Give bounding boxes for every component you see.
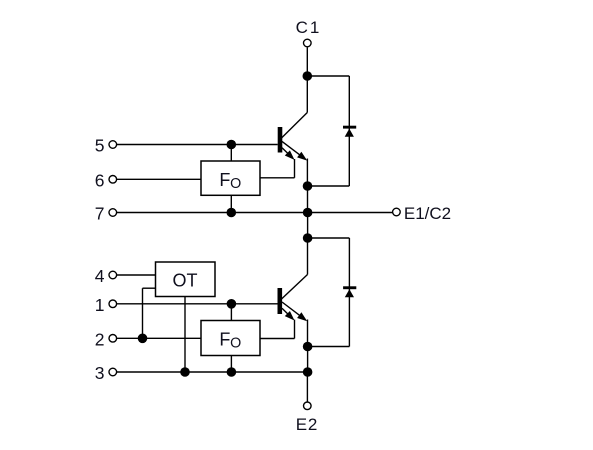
wire Q2 main emitter down to node: [307, 320, 309, 347]
transistor Q1 collector lead: [281, 113, 307, 139]
wire pin4 to OT left: [117, 274, 156, 276]
node OT bottom on pin3 line: [180, 367, 190, 377]
node main vertical on rail: [303, 208, 313, 218]
svg-text:7: 7: [95, 204, 105, 224]
transistor Q1 sense emitter arrowhead: [285, 150, 295, 160]
wire FO2 bottom: [230, 356, 232, 373]
node top (C1 / D1 cathode junction): [303, 71, 313, 81]
diode D2 branch bottom wire: [308, 346, 350, 348]
node E1 (Q1 emitter / D1 anode junction): [303, 181, 313, 191]
wire OT stub down to pin2 line: [142, 288, 144, 338]
wire rail down to lower collector node: [307, 213, 309, 239]
terminal pin 7: [109, 209, 117, 217]
diode D2 branch top wire: [308, 237, 350, 239]
diode D1 branch bottom wire: [308, 185, 350, 187]
wire pin7 / E1C2 rail: [117, 212, 392, 214]
wire Q1 sense emitter down: [294, 159, 296, 178]
diode D1 cathode bar: [343, 126, 356, 129]
svg-text:1: 1: [95, 295, 105, 315]
transistor Q2 base bar: [277, 288, 282, 314]
node pin2 / OT stub junction: [138, 334, 148, 344]
block OT box: [156, 262, 216, 297]
wire FO1 bottom: [230, 195, 232, 212]
transistor Q2 main emitter arrowhead: [297, 312, 307, 321]
svg-text:6: 6: [95, 170, 105, 190]
node pin1 / FO2 top junction: [227, 299, 237, 309]
terminal pin 2: [109, 335, 117, 343]
node pin3 / emitter junction: [303, 367, 313, 377]
wire C1 down to collector bend: [306, 47, 308, 112]
diode D2 cathode bar: [343, 286, 356, 289]
terminal E2: [304, 402, 312, 410]
transistor Q1 base bar: [278, 127, 283, 153]
diode D1 anode triangle: [345, 129, 354, 137]
svg-text:O: O: [230, 336, 241, 352]
transistor Q1 main emitter arrowhead: [297, 152, 307, 161]
transistor Q2 sense emitter lead: [282, 308, 290, 316]
svg-text:3: 3: [95, 363, 105, 383]
terminal pin 6: [109, 176, 117, 184]
svg-text:C1: C1: [296, 18, 322, 37]
wire lower collector vertical: [307, 238, 309, 275]
transistor Q2 main emitter lead: [282, 302, 302, 317]
terminal pin 3: [109, 368, 117, 376]
wire node E1 down to line7: [307, 186, 309, 213]
svg-text:E2: E2: [296, 415, 318, 434]
diode D2 anode triangle: [345, 289, 354, 297]
wire pin6 to FO1 left: [117, 178, 201, 180]
wire pin3 to main vertical: [117, 371, 308, 373]
transistor Q2 sense emitter arrowhead: [285, 311, 295, 321]
block FO1 box: [201, 161, 260, 195]
wire pin3 node down to E2 terminal: [306, 372, 308, 402]
terminal pin 5: [109, 141, 117, 149]
node FO2 bottom on pin3 line: [227, 367, 237, 377]
svg-text:E1/C2: E1/C2: [404, 204, 451, 223]
terminal C1: [304, 39, 312, 47]
svg-text:OT: OT: [173, 271, 198, 291]
transistor Q1 sense emitter lead: [282, 148, 290, 156]
transistor Q1 main emitter lead: [282, 141, 302, 156]
diode D2 vertical wire: [348, 238, 350, 347]
terminal pin 4: [109, 271, 117, 279]
svg-text:2: 2: [95, 329, 105, 349]
wire OT bottom down to pin3 line: [184, 297, 186, 373]
svg-text:5: 5: [95, 136, 105, 156]
svg-text:4: 4: [95, 266, 105, 286]
wire pin1 to Q2 base: [117, 303, 278, 305]
svg-text:O: O: [230, 176, 241, 192]
transistor Q2 collector lead: [282, 275, 308, 300]
svg-text:F: F: [219, 170, 230, 190]
wire Q2 sense emitter down: [294, 320, 296, 339]
wire FO2 top: [230, 304, 232, 321]
block FO2 box: [201, 321, 260, 356]
wire emitter node down to pin3 node: [307, 347, 309, 373]
node FO1 bottom on rail: [227, 208, 237, 218]
svg-text:F: F: [219, 330, 230, 350]
diode D1 vertical wire: [348, 76, 350, 186]
wire Q1 sense emitter to FO1 right: [260, 177, 295, 179]
node C2 (lower collector / D2 cathode junction): [303, 233, 313, 243]
wire OT left lower stub: [143, 287, 156, 289]
node E2 internal (Q2 emitter / D2 anode junction): [303, 342, 313, 352]
wire pin5 to Q1 base: [117, 144, 278, 146]
wire Q1 main emitter down to node: [306, 159, 308, 187]
terminal E1/C2: [393, 208, 401, 216]
node pin5 / FO1 top junction: [227, 140, 237, 150]
wire pin2 to FO2 left: [117, 337, 201, 339]
diode D1 branch top wire: [307, 75, 349, 77]
wire Q2 sense emitter to FO2 right: [260, 338, 295, 340]
terminal pin 1: [109, 300, 117, 308]
wire FO1 top: [230, 145, 232, 162]
